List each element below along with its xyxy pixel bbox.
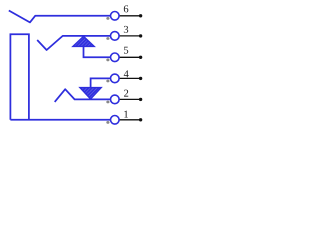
lower lever to pin 2 [55, 89, 115, 102]
pin label 3 [124, 26, 128, 33]
pin label 4 [124, 70, 129, 77]
wire sleeve to pin 1 [10, 119, 114, 121]
pin label 2 [124, 90, 128, 97]
pin 4 black lead [115, 77, 141, 79]
pin 3 black lead [115, 35, 141, 37]
pin 5 terminal circle [111, 53, 120, 62]
pin 3 terminal circle [111, 32, 120, 41]
pin name smudge 6 [106, 17, 109, 20]
pin 6 terminal circle [111, 12, 120, 21]
pin name smudge 2 [106, 101, 109, 104]
pin 1 terminal circle [111, 116, 120, 125]
pin name smudge 3 [106, 37, 109, 40]
pin label 6 [124, 5, 128, 12]
pin 5 black lead [115, 56, 141, 58]
NC switch contact triangle for pin 5 [73, 36, 94, 46]
pin label 5 [124, 47, 128, 54]
ring lever to pin 3 [37, 36, 115, 50]
pin label 1 [124, 111, 128, 118]
pin 2 terminal circle [111, 95, 120, 104]
pin name smudge 4 [106, 80, 109, 83]
pin name smudge 5 [106, 59, 109, 62]
pin 1 black lead [115, 119, 141, 121]
tip lever to pin 6 [9, 11, 115, 23]
stem triangle to pin 4 [91, 78, 115, 87]
jack body rectangle (sleeve) [10, 34, 29, 120]
pin 6 black lead [115, 15, 141, 17]
pin 2 black lead [115, 98, 141, 100]
pin name smudge 1 [106, 121, 109, 124]
pin 4 terminal circle [111, 74, 120, 83]
stem triangle to pin 5 [84, 46, 115, 57]
NC switch contact triangle for pin 4 [80, 88, 101, 99]
